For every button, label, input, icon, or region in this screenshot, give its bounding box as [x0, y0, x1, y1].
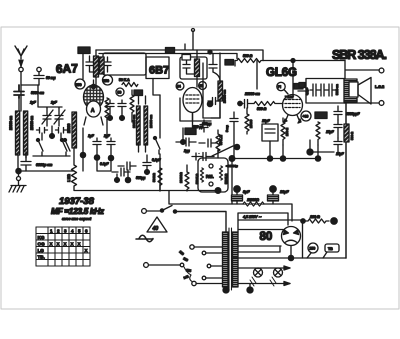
switch S1b — [61, 139, 68, 157]
circle 50 — [116, 88, 124, 96]
svg-text:50: 50 — [118, 91, 122, 95]
tag box 250 — [134, 90, 143, 96]
B+ vertical — [345, 103, 347, 258]
wire speaker feed — [298, 90, 306, 92]
node dot — [234, 144, 239, 149]
node junction — [50, 134, 55, 139]
wire 6L6G top — [292, 61, 294, 96]
capacitor right of 6B7 — [208, 98, 219, 105]
resistor 1M — [72, 148, 77, 190]
svg-text:250: 250 — [103, 79, 109, 83]
capacitor 8000uuF — [334, 106, 342, 120]
top bus — [96, 31, 345, 61]
tag box C4 — [225, 60, 234, 66]
tube 6B7 — [183, 88, 202, 121]
svg-text:2µF: 2µF — [103, 134, 111, 138]
filter line — [169, 191, 292, 221]
phone terminal wire — [345, 61, 379, 79]
resistor 10000 vert — [185, 165, 189, 191]
cathode ground bus — [232, 158, 318, 160]
resistor 25000 — [72, 112, 77, 148]
ground — [9, 171, 26, 192]
capacitor pair Ca — [93, 138, 101, 157]
resistor right of tube — [316, 122, 320, 145]
antenna A1 — [15, 46, 27, 67]
svg-text:4,5 250V ∼: 4,5 250V ∼ — [243, 215, 261, 219]
resistor 50K — [122, 83, 138, 87]
resistor 50K vert — [216, 130, 220, 152]
svg-text:6000µ cm: 6000µ cm — [36, 163, 53, 167]
svg-text:25000: 25000 — [67, 123, 71, 133]
cathode resistor 250 — [281, 118, 285, 145]
output transformer — [344, 79, 357, 102]
wire chassis bus — [74, 190, 218, 192]
svg-text:40: 40 — [153, 226, 159, 232]
wire coil bottom — [18, 155, 26, 171]
tag box MP1 — [78, 47, 90, 54]
circle 64 — [176, 82, 184, 90]
wire ground bus left — [18, 170, 74, 172]
IFT1 box — [100, 53, 147, 79]
svg-text:3: 3 — [64, 229, 67, 234]
svg-text:500 Ω: 500 Ω — [257, 107, 267, 111]
capacitor 300uu — [200, 120, 208, 132]
svg-text:50 K.A: 50 K.A — [119, 78, 130, 82]
tag box 104 — [294, 84, 303, 90]
resistor 100ohm — [302, 219, 329, 258]
svg-text:KG: KG — [38, 235, 45, 240]
svg-text:2: 2 — [57, 229, 60, 234]
trimmer capacitor CT1 — [42, 108, 53, 126]
ground blob — [307, 149, 313, 155]
wires 6A7 bottom — [74, 148, 111, 171]
svg-text:6B7: 6B7 — [149, 65, 169, 77]
node dots — [108, 116, 113, 121]
node dot — [181, 140, 186, 145]
tag box C1 — [182, 55, 191, 61]
node cathode bus right — [315, 156, 320, 161]
screen circle 250 — [75, 79, 85, 89]
svg-text:80: 80 — [260, 231, 273, 243]
plate feed wire — [256, 61, 258, 90]
capacitor below trimmer left — [37, 128, 48, 141]
capacitor 50mu — [34, 72, 44, 85]
switch S1a — [37, 139, 44, 157]
capacitor 6B7 plate — [209, 54, 217, 73]
svg-text:SBR 338A.: SBR 338A. — [332, 48, 387, 62]
PU box — [195, 158, 228, 192]
field coil 500 — [344, 124, 349, 142]
circle +30 — [301, 111, 311, 121]
svg-text:250: 250 — [76, 83, 82, 87]
svg-text:6A7: 6A7 — [56, 61, 79, 76]
screen capacitor — [230, 112, 238, 158]
svg-text:5 mµ: 5 mµ — [225, 125, 229, 132]
coil 10000cm b — [144, 106, 148, 145]
svg-text:20000 cm: 20000 cm — [9, 116, 13, 130]
svg-text:20000 cm: 20000 cm — [30, 116, 34, 130]
node dots under 6A7 — [80, 152, 85, 157]
svg-text:1: 1 — [50, 229, 53, 234]
svg-text:10µF: 10µF — [262, 119, 271, 123]
wire — [317, 145, 319, 158]
dial lamp 2 — [270, 268, 283, 286]
svg-text:250: 250 — [310, 247, 316, 251]
coupling caps lower — [199, 101, 220, 147]
svg-text:6: 6 — [85, 229, 88, 234]
svg-text:5: 5 — [78, 229, 81, 234]
capacitor 0.1uF det — [143, 155, 151, 172]
wire 6B7 grid — [153, 79, 160, 96]
svg-text:15µF: 15µF — [326, 130, 335, 134]
svg-text:Pl: Pl — [278, 85, 281, 89]
svg-text:20000 cm: 20000 cm — [244, 92, 260, 96]
wire junction antenna — [19, 85, 39, 111]
tube 80 — [282, 227, 301, 259]
svg-text:500 K.Ω: 500 K.Ω — [224, 174, 228, 184]
svg-text:250 Ω: 250 Ω — [285, 127, 289, 136]
capacitor below trimmer right — [56, 128, 67, 141]
node dot 6B7 out — [207, 101, 212, 106]
elco 8uF — [232, 186, 251, 204]
tag TB — [323, 244, 339, 258]
svg-text:avec une aspect: avec une aspect — [62, 216, 92, 221]
earth terminal — [37, 67, 41, 71]
svg-text:MF =123.5 kHz: MF =123.5 kHz — [51, 206, 105, 216]
elco 10uF — [268, 186, 290, 204]
capacitor 6000cm — [21, 152, 31, 171]
antenna terminal — [19, 67, 23, 71]
resistor bus 500 — [235, 59, 264, 67]
tube 6L6G — [283, 95, 303, 124]
speaker box — [306, 79, 345, 104]
6B7 output stage box — [219, 53, 221, 118]
tag box C2 — [185, 128, 196, 135]
IF transformer T1 — [86, 50, 99, 86]
secondary winding — [233, 232, 239, 287]
capacitor 5000cm — [14, 85, 24, 98]
filter resistor 10000 — [243, 202, 264, 206]
plate circle — [277, 82, 288, 94]
svg-text:500µµ: 500µµ — [136, 176, 145, 180]
capacitor 15uF a — [334, 120, 342, 138]
tag box small — [166, 48, 175, 54]
node plate junction — [291, 59, 295, 63]
svg-text:1 MΩ: 1 MΩ — [67, 174, 71, 182]
grid resistor 500 — [254, 102, 283, 106]
svg-text:100 Ω: 100 Ω — [310, 215, 320, 219]
diode box — [180, 98, 211, 121]
svg-text:1µF: 1µF — [88, 134, 95, 138]
antenna coil L2 — [24, 111, 28, 155]
dial lamp 1 — [250, 268, 263, 286]
cathode box 10uF — [262, 119, 278, 141]
svg-text:10000 cm: 10000 cm — [132, 114, 136, 128]
svg-text:20000 cm: 20000 cm — [223, 89, 227, 103]
detector lower cluster — [112, 162, 145, 183]
coil 10000cm a — [137, 106, 141, 145]
bottom B+ line — [232, 257, 346, 259]
speaker bottom wire — [344, 102, 379, 104]
screen circle 250b — [103, 75, 113, 85]
capacitor pair c2 — [118, 100, 126, 118]
screen resistor — [245, 108, 249, 134]
wire AVC diagonal — [212, 146, 237, 156]
switch S2 — [154, 137, 161, 155]
svg-text:0,1µF: 0,1µF — [305, 88, 309, 95]
wire antenna down — [20, 72, 22, 85]
antenna coil L1 — [16, 111, 20, 155]
svg-text:L.S.2: L.S.2 — [375, 85, 384, 89]
svg-text:2µµ: 2µµ — [183, 149, 190, 153]
wire 6B7 cathode — [192, 113, 194, 128]
svg-text:+30: +30 — [303, 115, 309, 119]
svg-text:50 K.Ω: 50 K.Ω — [219, 135, 223, 145]
coil 20000 output — [218, 81, 223, 101]
resistor vert mid — [130, 90, 134, 122]
speaker caps — [310, 84, 336, 96]
wire switch bottom — [33, 155, 70, 157]
svg-text:500 Ω: 500 Ω — [243, 54, 253, 58]
svg-text:4: 4 — [71, 229, 74, 234]
svg-text:0.1µF: 0.1µF — [100, 162, 109, 166]
primary bottom dot — [223, 287, 229, 293]
svg-text:TB.: TB. — [38, 255, 45, 260]
capacitor 500uu — [176, 138, 196, 146]
svg-text:25000: 25000 — [249, 119, 253, 128]
heater leads — [238, 246, 281, 252]
svg-text:10000 cm: 10000 cm — [149, 114, 153, 128]
fuse triangle 40 — [147, 217, 167, 232]
voltage selector — [144, 263, 149, 268]
svg-text:5000 cm: 5000 cm — [31, 91, 44, 95]
circle 250 ps — [307, 243, 318, 258]
svg-text:500 Ω: 500 Ω — [350, 131, 354, 140]
svg-text:10000Ω: 10000Ω — [247, 198, 259, 202]
capacitor pair det — [192, 153, 214, 161]
capacitor pair Cb — [107, 138, 115, 157]
mains switch line — [142, 209, 147, 214]
capacitor pair c1 — [106, 100, 114, 118]
svg-text:500 K.Ω: 500 K.Ω — [195, 174, 199, 184]
svg-text:OG: OG — [38, 242, 46, 247]
svg-text:10000Ω: 10000Ω — [179, 172, 183, 183]
6B7 label box — [146, 57, 169, 79]
svg-text:10µF: 10µF — [280, 190, 289, 194]
wire arc to coil — [213, 72, 220, 81]
vertical line detector — [159, 95, 161, 191]
svg-text:0,1µF: 0,1µF — [152, 158, 161, 162]
svg-text:TB: TB — [328, 247, 333, 251]
HT leads — [238, 213, 302, 232]
speaker LS2 — [349, 78, 371, 105]
wire trimmer bus — [38, 85, 62, 108]
circle 6B7 right — [199, 82, 207, 90]
trimmer capacitor CT2 — [54, 108, 65, 126]
svg-text:8µF: 8µF — [243, 190, 250, 194]
svg-text:64: 64 — [177, 85, 181, 89]
capacitor 15uF b — [334, 138, 342, 152]
svg-text:8000µµF: 8000µµF — [346, 112, 360, 116]
wire tag to screen circle — [82, 54, 84, 79]
svg-text:50 mµ: 50 mµ — [46, 76, 56, 80]
resistor osc grid — [105, 98, 109, 138]
tag box 122 — [315, 112, 327, 119]
power transformer core — [229, 228, 232, 290]
svg-text:P.U.: P.U. — [206, 174, 214, 179]
selector arm wavy wire — [184, 267, 192, 282]
svg-text:2µF: 2µF — [50, 101, 58, 105]
band table — [36, 227, 90, 266]
svg-text:15µF: 15µF — [336, 152, 345, 156]
capacitor 50000uu — [198, 153, 200, 155]
node bus junction — [208, 50, 212, 54]
svg-text:LG: LG — [38, 248, 45, 253]
tube 6A7 — [84, 80, 104, 125]
switch S1c — [64, 128, 84, 171]
tag box speaker — [299, 83, 305, 88]
resistor 5000 det — [158, 168, 162, 191]
AC symbol — [136, 235, 153, 242]
svg-text:T 2.5/7: T 2.5/7 — [285, 95, 294, 99]
svg-text:5000 cm: 5000 cm — [335, 84, 339, 95]
IFT2 box — [180, 50, 207, 87]
svg-text:5000Ω: 5000Ω — [152, 172, 156, 182]
primary winding — [223, 232, 229, 287]
svg-text:1µF: 1µF — [30, 101, 37, 105]
